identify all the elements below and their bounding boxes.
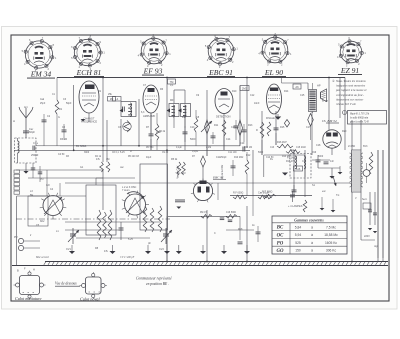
svg-text:50pF: 50pF bbox=[66, 102, 72, 105]
svg-text:R18: R18 bbox=[238, 228, 243, 231]
svg-text:250pF: 250pF bbox=[31, 153, 39, 157]
svg-text:C16: C16 bbox=[302, 161, 307, 163]
svg-text:C1a: C1a bbox=[33, 141, 38, 145]
svg-text:R.F 600Ω: R.F 600Ω bbox=[233, 192, 244, 195]
svg-text:Haut-P. L.735 25h: Haut-P. L.735 25h bbox=[349, 113, 370, 116]
svg-text:40µF: 40µF bbox=[146, 157, 152, 159]
svg-text:①: ① bbox=[332, 79, 335, 83]
svg-text:1605 Kc: 1605 Kc bbox=[325, 241, 337, 245]
svg-text:R11: R11 bbox=[214, 124, 219, 127]
svg-text:250pF: 250pF bbox=[220, 157, 227, 159]
svg-text:par rapport à la masse et: par rapport à la masse et bbox=[335, 88, 367, 92]
svg-text:5-25: 5-25 bbox=[120, 152, 125, 154]
svg-text:R12 1M: R12 1M bbox=[244, 147, 252, 149]
svg-text:150: 150 bbox=[295, 249, 301, 253]
svg-text:GO: GO bbox=[277, 249, 284, 254]
svg-text:EL 90: EL 90 bbox=[264, 68, 283, 77]
svg-text:60pF: 60pF bbox=[29, 130, 35, 134]
svg-text:B: B bbox=[17, 269, 19, 273]
svg-text:correspondent au fonc-: correspondent au fonc- bbox=[336, 93, 364, 97]
svg-text:R14: R14 bbox=[284, 90, 289, 93]
svg-text:5,94: 5,94 bbox=[295, 233, 302, 237]
svg-text:1M: 1M bbox=[106, 158, 109, 161]
svg-text:CV 2×490 pF: CV 2×490 pF bbox=[120, 256, 135, 259]
svg-text:Gammes couvertes: Gammes couvertes bbox=[294, 218, 324, 222]
svg-text:EBC 91: EBC 91 bbox=[208, 68, 233, 77]
svg-text:le selfe 600Ω min: le selfe 600Ω min bbox=[350, 117, 369, 120]
svg-text:R20: R20 bbox=[342, 130, 347, 133]
svg-text:à: à bbox=[311, 233, 313, 237]
svg-text:HP: HP bbox=[317, 84, 321, 88]
svg-text:C16 5000: C16 5000 bbox=[226, 212, 237, 214]
svg-text:C11: C11 bbox=[216, 156, 221, 159]
svg-text:mp: mp bbox=[374, 244, 378, 248]
svg-text:C: C bbox=[214, 232, 216, 235]
svg-text:Txt: Txt bbox=[336, 194, 340, 197]
svg-text:réseau 110 V alt.: réseau 110 V alt. bbox=[336, 102, 356, 106]
svg-text:C18: C18 bbox=[316, 144, 321, 147]
svg-text:ECH 81: ECH 81 bbox=[76, 68, 102, 77]
svg-text:R9 0,5: R9 0,5 bbox=[200, 212, 207, 214]
svg-text:G: G bbox=[58, 116, 60, 119]
svg-text:R5 220: R5 220 bbox=[128, 156, 136, 158]
svg-text:BC: BC bbox=[276, 226, 284, 231]
svg-text:2M2: 2M2 bbox=[156, 131, 161, 134]
svg-text:R14 150: R14 150 bbox=[282, 156, 291, 158]
svg-text:R5 2k: R5 2k bbox=[171, 158, 178, 161]
svg-text:5,84: 5,84 bbox=[295, 225, 302, 229]
svg-text:R13: R13 bbox=[248, 124, 253, 127]
svg-text:R12: R12 bbox=[246, 154, 251, 157]
svg-text:25pF: 25pF bbox=[40, 103, 46, 105]
svg-text:DETECTION: DETECTION bbox=[216, 116, 231, 119]
svg-text:CV1: CV1 bbox=[66, 248, 71, 251]
svg-text:18,58 Mc: 18,58 Mc bbox=[324, 233, 338, 237]
svg-text:à: à bbox=[311, 249, 313, 253]
svg-text:à: à bbox=[311, 241, 313, 245]
svg-text:5000: 5000 bbox=[190, 138, 196, 141]
svg-text:Culot miniature: Culot miniature bbox=[15, 296, 42, 301]
svg-text:R15: R15 bbox=[280, 126, 285, 129]
svg-text:C13: C13 bbox=[231, 126, 236, 129]
svg-text:H: H bbox=[33, 268, 35, 272]
svg-text:BE: BE bbox=[30, 194, 34, 197]
svg-text:2M2: 2M2 bbox=[242, 86, 248, 90]
svg-text:R15 470k: R15 470k bbox=[286, 161, 297, 163]
svg-text:5-25: 5-25 bbox=[128, 238, 133, 241]
svg-text:Nota. Toutes les tensions: Nota. Toutes les tensions bbox=[335, 79, 367, 83]
svg-text:5000: 5000 bbox=[258, 152, 264, 154]
svg-text:R4 580Ω: R4 580Ω bbox=[76, 144, 86, 148]
svg-text:C6 0,1: C6 0,1 bbox=[112, 152, 119, 154]
svg-text:3900: 3900 bbox=[84, 152, 90, 154]
svg-text:Ve de la CAV: Ve de la CAV bbox=[221, 165, 224, 179]
svg-text:Commutateur représenté: Commutateur représenté bbox=[136, 277, 172, 281]
svg-text:C10: C10 bbox=[190, 126, 195, 129]
svg-text:EZ 91: EZ 91 bbox=[340, 66, 359, 75]
svg-text:PO: PO bbox=[277, 241, 284, 246]
svg-text:C15: C15 bbox=[300, 94, 305, 97]
svg-text:R10: R10 bbox=[232, 90, 237, 93]
svg-text:7,5 Mc: 7,5 Mc bbox=[326, 225, 336, 229]
svg-text:tionnement sur secteur: tionnement sur secteur bbox=[336, 97, 364, 101]
svg-text:7 tours: 7 tours bbox=[122, 189, 130, 192]
svg-text:MF: MF bbox=[170, 99, 174, 102]
svg-text:A6: A6 bbox=[295, 85, 299, 89]
svg-text:6V3: 6V3 bbox=[363, 145, 368, 148]
svg-text:Sect.: Sect. bbox=[362, 198, 368, 201]
svg-text:Cad: Cad bbox=[40, 99, 45, 101]
svg-text:en position BE .: en position BE . bbox=[146, 282, 169, 286]
svg-text:1nF: 1nF bbox=[330, 161, 335, 163]
svg-text:EM 34: EM 34 bbox=[326, 119, 336, 123]
svg-text:R: R bbox=[130, 150, 132, 153]
svg-text:R4 1k: R4 1k bbox=[95, 156, 102, 158]
svg-text:C12: C12 bbox=[250, 94, 255, 97]
svg-text:PO: PO bbox=[40, 178, 44, 181]
svg-text:Ant: Ant bbox=[24, 106, 28, 109]
svg-text:EM 34: EM 34 bbox=[30, 70, 52, 79]
svg-text:5000: 5000 bbox=[318, 156, 324, 158]
svg-text:10nF: 10nF bbox=[254, 102, 260, 105]
svg-text:R3 1M: R3 1M bbox=[60, 138, 67, 141]
svg-text:C15 20nF: C15 20nF bbox=[296, 147, 307, 149]
svg-text:GO: GO bbox=[46, 184, 50, 187]
svg-text:220V: 220V bbox=[364, 235, 370, 238]
svg-text:Bloc: Bloc bbox=[40, 220, 46, 223]
svg-text:306 Kc: 306 Kc bbox=[326, 249, 337, 253]
svg-text:C17: C17 bbox=[306, 126, 311, 129]
svg-text:C9 40: C9 40 bbox=[162, 152, 169, 154]
svg-text:R10 2M2: R10 2M2 bbox=[234, 157, 244, 159]
svg-text:CV2: CV2 bbox=[159, 248, 164, 251]
svg-text:2×350: 2×350 bbox=[348, 145, 356, 148]
svg-text:C14: C14 bbox=[226, 138, 231, 141]
svg-text:A: A bbox=[13, 119, 15, 123]
svg-text:Tr HP: Tr HP bbox=[322, 100, 329, 103]
svg-text:AMPLI MF: AMPLI MF bbox=[143, 114, 156, 118]
svg-text:525: 525 bbox=[295, 241, 301, 245]
svg-text:R19: R19 bbox=[312, 152, 317, 154]
svg-text:R16 4M7: R16 4M7 bbox=[277, 141, 287, 144]
svg-text:FINALE: FINALE bbox=[266, 117, 275, 120]
svg-text:C11 100: C11 100 bbox=[228, 152, 237, 154]
svg-text:C4 50: C4 50 bbox=[58, 153, 65, 156]
svg-text:tr: tr bbox=[30, 234, 32, 237]
svg-text:442: 442 bbox=[182, 116, 187, 119]
svg-text:EF 93: EF 93 bbox=[143, 67, 163, 76]
svg-text:2,2M: 2,2M bbox=[206, 147, 211, 149]
svg-text:0,1µF: 0,1µF bbox=[192, 150, 199, 153]
svg-text:à: à bbox=[311, 225, 313, 229]
svg-text:indiquées sont mesurées: indiquées sont mesurées bbox=[336, 84, 366, 88]
svg-text:+ 4 LAMPES: + 4 LAMPES bbox=[288, 205, 303, 208]
svg-text:Culot noval: Culot noval bbox=[80, 297, 100, 302]
svg-text:OC: OC bbox=[277, 234, 284, 239]
svg-text:R: R bbox=[256, 129, 258, 132]
svg-text:C19: C19 bbox=[240, 142, 245, 145]
svg-text:0,1µF: 0,1µF bbox=[176, 147, 183, 149]
svg-text:Bloc accord: Bloc accord bbox=[36, 256, 49, 259]
svg-text:R5 580: R5 580 bbox=[146, 147, 154, 149]
svg-text:C13: C13 bbox=[270, 147, 275, 149]
svg-text:Vue de dessous: Vue de dessous bbox=[55, 282, 77, 286]
svg-text:PU: PU bbox=[14, 236, 18, 239]
svg-text:pour la selfe 7245: pour la selfe 7245 bbox=[349, 121, 370, 124]
svg-text:R17 600Ω: R17 600Ω bbox=[262, 192, 273, 194]
